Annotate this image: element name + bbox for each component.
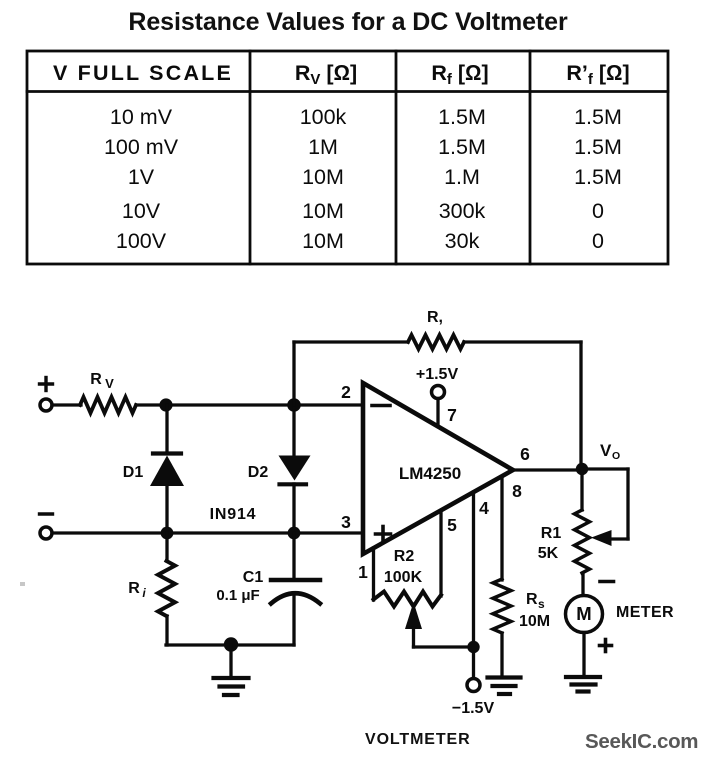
wire top rail to op-amp pin 2 [136, 403, 363, 406]
node at C1 junction [288, 527, 301, 540]
svg-text:5K: 5K [538, 545, 559, 562]
svg-text:100 mV: 100 mV [104, 135, 179, 159]
svg-text:1.5M: 1.5M [438, 105, 486, 129]
capacitor C1 [216, 533, 320, 645]
svg-text:R’f [Ω]: R’f [Ω] [566, 61, 629, 88]
svg-text:O: O [612, 450, 620, 462]
svg-text:V: V [600, 441, 612, 460]
svg-text:1: 1 [358, 562, 368, 582]
svg-text:4: 4 [479, 498, 489, 518]
svg-text:100k: 100k [300, 105, 347, 129]
wire bottom rail to op-amp pin 3 [52, 531, 363, 534]
table column 3 values [438, 105, 486, 253]
resistor Rs 10M [493, 579, 550, 633]
svg-text:2: 2 [341, 382, 351, 402]
plus input terminal [40, 378, 53, 412]
wire Vo to R1 wiper loop [582, 469, 628, 546]
potentiometer R1 5K [538, 469, 590, 573]
svg-text:100V: 100V [116, 229, 167, 253]
svg-text:V FULL SCALE: V FULL SCALE [53, 61, 233, 85]
svg-text:100K: 100K [384, 569, 423, 586]
svg-text:1M: 1M [308, 135, 338, 159]
svg-text:1.5M: 1.5M [574, 105, 622, 129]
svg-text:V: V [105, 376, 114, 391]
scan smudge speck [20, 582, 25, 586]
svg-text:10M: 10M [519, 613, 550, 630]
svg-text:D2: D2 [248, 464, 269, 481]
pin 4 wire down to -1.5V [474, 492, 490, 678]
resistor RV [80, 371, 136, 413]
pin 5 wire to R2 right end [441, 511, 457, 596]
table column 4 values [574, 105, 622, 253]
svg-text:10 mV: 10 mV [110, 105, 173, 129]
VOLTMETER caption [365, 731, 471, 749]
svg-text:1.5M: 1.5M [574, 135, 622, 159]
svg-text:1.M: 1.M [444, 165, 480, 189]
table column line 2 [395, 51, 398, 264]
svg-text:R,: R, [427, 309, 443, 326]
svg-text:6: 6 [520, 444, 530, 464]
svg-text:C1: C1 [243, 569, 264, 586]
svg-text:R: R [526, 591, 538, 608]
feedback wire up from D2 node [292, 342, 295, 405]
table header separator line [27, 90, 668, 93]
node at pin4/wiper junction [467, 641, 479, 653]
svg-text:i: i [142, 586, 146, 600]
svg-text:R: R [90, 371, 102, 388]
svg-text:IN914: IN914 [210, 506, 257, 523]
table column line 3 [529, 51, 532, 264]
pin 1 wire to R2 left end [358, 548, 373, 600]
svg-text:30k: 30k [445, 229, 480, 253]
node at D2/feedback junction [287, 398, 301, 412]
svg-text:300k: 300k [439, 199, 486, 223]
svg-text:s: s [538, 597, 545, 611]
svg-text:7: 7 [447, 405, 457, 425]
ground below meter [566, 677, 600, 692]
wire from + terminal to Rv [52, 403, 81, 406]
node Vo [576, 441, 620, 475]
svg-text:−1.5V: −1.5V [452, 700, 495, 717]
ground below C1/Ri [214, 645, 249, 695]
op-amp U1 LM4250 [363, 383, 513, 554]
svg-text:1V: 1V [128, 165, 155, 189]
svg-text:+1.5V: +1.5V [416, 366, 459, 383]
svg-text:LM4250: LM4250 [399, 464, 461, 483]
svg-text:METER: METER [616, 604, 674, 621]
meter M [566, 582, 675, 652]
node at Ri junction [161, 527, 174, 540]
svg-text:0: 0 [592, 229, 604, 253]
output wire pin 6 [513, 444, 582, 470]
svg-text:1.5M: 1.5M [438, 135, 486, 159]
svg-text:0.1 μF: 0.1 μF [216, 587, 259, 604]
svg-text:D1: D1 [123, 464, 144, 481]
svg-text:10M: 10M [302, 229, 344, 253]
resistor Rf [408, 309, 464, 349]
svg-text:R2: R2 [394, 548, 415, 565]
-1.5V supply terminal [452, 679, 495, 718]
R2 wiper arrow [405, 602, 474, 647]
diode D1 [123, 405, 184, 533]
minus input terminal [40, 514, 53, 539]
svg-text:R: R [128, 580, 140, 597]
svg-text:RV [Ω]: RV [Ω] [295, 61, 357, 88]
feedback top wire left segment [294, 340, 408, 343]
feedback wire down to output node [579, 342, 582, 469]
table title [0, 8, 701, 37]
svg-text:Rf [Ω]: Rf [Ω] [431, 61, 488, 88]
svg-text:5: 5 [447, 515, 457, 535]
table outer border [27, 51, 668, 264]
ground below Rs [488, 678, 521, 695]
resistor Ri [128, 533, 175, 645]
svg-text:M: M [576, 603, 591, 624]
SeekIC.com watermark [585, 730, 698, 754]
wire Ri bottom to C1 bottom [166, 643, 294, 646]
svg-text:10M: 10M [302, 165, 344, 189]
wire Rs to ground [500, 633, 503, 676]
feedback top wire right segment [464, 340, 581, 343]
table column 2 values [300, 105, 347, 253]
svg-text:10M: 10M [302, 199, 344, 223]
diode D2 [248, 405, 311, 533]
wire R1 to meter [581, 573, 584, 596]
table column line 1 [249, 51, 252, 264]
svg-text:R1: R1 [541, 525, 562, 542]
svg-text:0: 0 [592, 199, 604, 223]
svg-text:10V: 10V [122, 199, 161, 223]
pin 8 wire to Rs [502, 477, 522, 580]
svg-text:3: 3 [341, 512, 351, 532]
wire meter to ground [582, 633, 585, 677]
+1.5V supply terminal pin 7 [416, 366, 459, 426]
potentiometer R2 100K [374, 548, 442, 607]
svg-text:1.5M: 1.5M [574, 165, 622, 189]
node at Rv/D1 junction [159, 398, 172, 411]
svg-text:8: 8 [512, 481, 522, 501]
table column 1 values [104, 105, 179, 253]
node at ground junction [224, 637, 238, 651]
